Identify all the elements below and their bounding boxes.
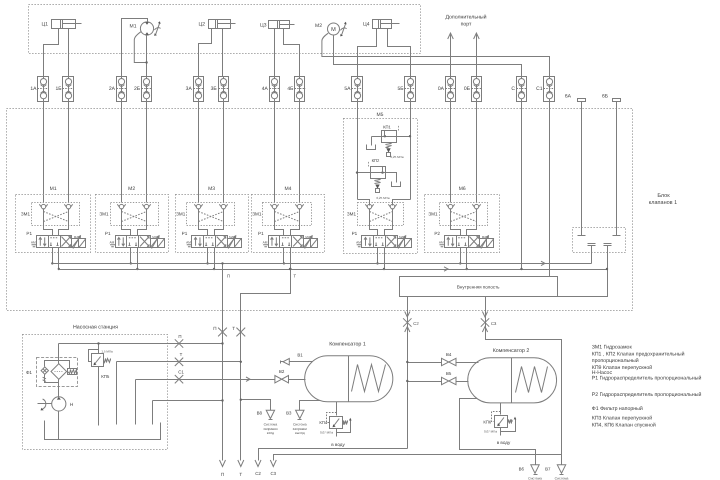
С3 line to bottom port (274, 455, 562, 461)
spring КП5 (104, 359, 111, 363)
pilot check valve 1Б (63, 77, 74, 102)
М1 variable displacement arrow (156, 23, 160, 34)
svg-text:3А: 3А (186, 86, 193, 92)
spring КП6 (508, 420, 513, 424)
svg-text:4Б: 4Б (287, 86, 294, 92)
П bus (pressure rail) (53, 263, 592, 265)
wire valve row to module (121, 102, 123, 203)
lock pilot cross lines (122, 212, 147, 222)
svg-text:КП5: КП5 (101, 374, 110, 379)
svg-text:М2: М2 (315, 23, 322, 29)
svg-text:Н: Н (70, 402, 73, 407)
Т bus (tank rail) (59, 269, 608, 271)
svg-text:АМ: АМ (31, 240, 36, 244)
wire С2 feed to В4 (408, 362, 442, 364)
wire М1 bottom port to 2Б (146, 35, 148, 77)
svg-text:С3: С3 (270, 471, 276, 476)
Т line to pump station (117, 361, 241, 363)
svg-text:ЗМ1: ЗМ1 (252, 212, 262, 217)
wire Р1 T port to Т bus (137, 248, 139, 270)
svg-text:Насосная станция: Насосная станция (73, 324, 118, 330)
svg-text:Дополнительный: Дополнительный (445, 15, 486, 21)
wire valve row to module (274, 102, 276, 203)
wire М2 case drain to С1 valve (322, 33, 550, 76)
wire Ц1 port B (68, 29, 70, 77)
solenoid of Р1 (228, 239, 235, 248)
П drop line to bottom port (222, 264, 224, 461)
flow arrow on Т bus (444, 267, 448, 271)
wire filter to П line (58, 344, 60, 364)
hydraulic lock ЗМ1 of М6 (440, 203, 488, 226)
svg-text:М2: М2 (128, 186, 135, 192)
wire Р2 P port to П bus (460, 248, 462, 264)
svg-text:АМ: АМ (263, 240, 268, 244)
wire valve row to module (198, 102, 200, 203)
svg-text:ЗМ1: ЗМ1 (428, 212, 438, 217)
wire Ц4 port B (388, 29, 411, 77)
junction С / Т bus (520, 268, 522, 270)
motor М2 (328, 23, 340, 35)
dashed enclosure: plug block (6А/6Б caps) (573, 228, 626, 253)
wire valve row to module (68, 102, 70, 203)
svg-text:КП1: КП1 (383, 125, 391, 130)
svg-text:В5: В5 (446, 371, 452, 376)
spring Компенсатор 1 (352, 365, 386, 392)
М2 side arrow (342, 24, 346, 35)
svg-text:0,07 МПа: 0,07 МПа (320, 431, 333, 435)
lock pilot cross lines (44, 212, 69, 222)
junction КП1 / 5Б (409, 135, 411, 137)
svg-text:В7: В7 (545, 467, 551, 472)
svg-text:МА: МА (305, 235, 310, 239)
pump Н (52, 397, 66, 411)
svg-text:М6: М6 (459, 186, 466, 192)
С2 line to bottom port (259, 449, 408, 461)
svg-text:МА: МА (74, 235, 79, 239)
box Внутренняя полость (400, 277, 558, 297)
svg-text:ЗМ1 Гидрозамок: ЗМ1 Гидрозамок (592, 344, 633, 350)
wire 5Б into М5 lock (393, 200, 411, 206)
Компенсатор 2 vessel (468, 358, 557, 403)
drain return into tank (152, 401, 154, 425)
КП6 outlet (500, 428, 502, 436)
wire С1 valve to Внутренняя полость (549, 102, 551, 277)
svg-text:АМ: АМ (356, 240, 361, 244)
svg-text:В2: В2 (279, 369, 285, 374)
svg-text:КП4, КП6 Клапан спускной: КП4, КП6 Клапан спускной (592, 422, 656, 428)
svg-text:В8: В8 (257, 410, 263, 415)
junction П line / П drop (221, 342, 223, 344)
svg-text:заправки: заправки (293, 427, 307, 431)
pilot check valve 3А (194, 77, 204, 102)
plug cap 6Б (613, 235, 621, 237)
solenoid of Р1 (304, 239, 311, 248)
wire Компенсатор 1 to КП4 (336, 402, 338, 416)
flow arrow С2 (405, 327, 410, 333)
wire КП2 to tank (386, 173, 397, 183)
В1 end bar (280, 361, 282, 364)
wire filter to pump (58, 380, 60, 397)
pilot check valve 2Б (142, 77, 152, 102)
svg-text:Р1: Р1 (258, 231, 264, 236)
П line from pump station (59, 343, 223, 345)
wires lock to valve Р2 (451, 210, 461, 236)
filter bypass branch (45, 361, 70, 369)
svg-text:М5: М5 (377, 112, 384, 118)
solenoid of Р1 (151, 239, 158, 248)
spring КП1 (386, 143, 392, 148)
pilot check valve С1 (544, 77, 555, 102)
flow arrow on С1 line (246, 377, 250, 381)
vent В3 to filling system (300, 401, 321, 411)
С1 line pump station to В2 (136, 379, 275, 381)
wire Р1 T port to Т bus (290, 248, 292, 270)
Компенсатор 2 drain to В6 (460, 399, 536, 465)
wire КП1 to 5Б line (397, 136, 411, 138)
svg-text:М1: М1 (130, 24, 137, 30)
svg-text:Р2: Р2 (434, 231, 440, 236)
svg-text:АМ: АМ (439, 240, 444, 244)
capped stub Т (604, 243, 612, 245)
dashed box module М1 (16, 195, 91, 253)
wire Р1 T port to Т bus (384, 248, 386, 270)
wire С2 feed to В5 (408, 381, 442, 383)
svg-text:М: М (331, 27, 336, 33)
wire П line to КП5 (98, 344, 100, 354)
svg-text:Система: Система (264, 422, 278, 426)
dashed enclosure: Насосная станция (23, 335, 168, 450)
svg-text:Т: Т (294, 274, 297, 279)
svg-text:1А: 1А (30, 86, 37, 92)
wire Р1 T port to Т bus (214, 248, 216, 270)
flow arrow С3 (482, 327, 487, 333)
svg-text:пропорциональный: пропорциональный (592, 358, 639, 364)
svg-text:П: П (178, 334, 181, 339)
pilot check valve 0Б (472, 77, 482, 102)
КП5 drain to tank (98, 367, 100, 426)
Т drop line to bottom port (241, 270, 291, 461)
svg-text:Компенсатор 2: Компенсатор 2 (493, 348, 530, 354)
clogging indicator diamond (41, 367, 48, 374)
wire valve row to module (146, 102, 148, 203)
spring Компенсатор 2 (516, 367, 548, 393)
svg-text:М3: М3 (208, 186, 215, 192)
pilot check valve 4А (270, 77, 280, 102)
spring КП2 (375, 179, 381, 184)
pump drive shaft (38, 403, 52, 405)
wire valve row to module (450, 102, 452, 203)
svg-text:С1: С1 (178, 370, 184, 375)
junction drain / П drop (221, 399, 223, 401)
svg-text:порт: порт (461, 22, 472, 28)
dashed box module М4 (252, 195, 325, 253)
svg-text:3Б: 3Б (211, 86, 218, 92)
lock pilot cross lines (275, 212, 300, 222)
hydraulic lock ЗМ1 of М3 (187, 203, 235, 226)
svg-text:С1: С1 (536, 86, 543, 92)
wire С valve to Т bus (521, 102, 523, 270)
svg-text:Ц3: Ц3 (260, 22, 267, 28)
svg-text:П: П (221, 472, 224, 477)
wire Р1 P port to П bus (52, 248, 54, 264)
pilot check valve 5А (352, 77, 363, 102)
svg-text:клапанов 1: клапанов 1 (649, 200, 677, 206)
pilot check valve 5Б (405, 77, 416, 102)
pilot check valve 2А (117, 77, 127, 102)
svg-text:выход: выход (295, 431, 305, 435)
svg-text:ЗМ1: ЗМ1 (21, 212, 31, 217)
svg-text:М4: М4 (284, 186, 291, 192)
С3 bottom arrow (270, 460, 276, 467)
junction С2 / В5 branch (406, 380, 408, 382)
hydraulic cylinder Ц3 (269, 21, 290, 29)
wire 5Б down through М5 (410, 102, 412, 200)
junction КП2 / 5А (356, 171, 358, 173)
dashed box module М2 (96, 195, 169, 253)
svg-text:0Б: 0Б (464, 86, 471, 92)
hydraulic lock ЗМ1 of М2 (111, 203, 159, 226)
flow arrow down С3 (482, 312, 487, 318)
lock pilot cross lines (451, 212, 477, 222)
svg-text:в воду: в воду (331, 442, 345, 447)
svg-text:ЗМ1: ЗМ1 (176, 212, 186, 217)
hydraulic lock ЗМ1 of М1 (32, 203, 80, 226)
wire 5А into М5 lock (358, 200, 370, 206)
tank symbol (КП1 drain) (367, 145, 376, 150)
wire Ц4 port A (358, 29, 377, 77)
svg-text:ЗМ1: ЗМ1 (99, 212, 109, 217)
additional port arrow A (450, 35, 452, 77)
wire Ц2 port A (199, 29, 212, 77)
flow arrow on П bus (541, 261, 545, 265)
svg-text:МА: МА (482, 235, 487, 239)
dashed enclosure: top actuators group (29, 5, 421, 54)
wire Р2 T port to Т bus (466, 248, 468, 270)
flow arrow down С2 (405, 312, 410, 318)
svg-text:6А: 6А (565, 94, 572, 100)
dashed enclosure: Блок клапанов 1 (7, 109, 633, 311)
С1 return into tank (135, 380, 137, 425)
svg-text:Система: Система (293, 422, 307, 426)
svg-text:4А: 4А (262, 86, 269, 92)
additional port arrow B (476, 35, 478, 77)
wire valve row to module (223, 102, 225, 203)
solenoid of Р2 (480, 239, 487, 248)
dashed box module М3 (176, 195, 249, 253)
svg-text:В3: В3 (286, 410, 292, 415)
coupling ✕ on П drop (218, 328, 227, 337)
wire М1 case drain (134, 32, 146, 63)
capped stub П (588, 243, 596, 245)
hydraulic motor М1 (140, 22, 153, 35)
tank symbol (КП2 drain) (392, 182, 401, 187)
flow arrow under КП2 (375, 185, 379, 189)
svg-text:АМ: АМ (109, 240, 114, 244)
svg-text:С: С (511, 86, 515, 92)
svg-text:Внутренняя полость: Внутренняя полость (457, 284, 500, 289)
svg-text:С3: С3 (491, 321, 497, 326)
hydraulic lock ЗМ1 of М4 (263, 203, 312, 226)
svg-text:Т: Т (180, 352, 183, 357)
coupling ✕ С2 (403, 318, 411, 326)
coupling ✕ С3 (481, 318, 489, 326)
svg-text:Р2 Гидрораспределитель пропорц: Р2 Гидрораспределитель пропорциональный (592, 392, 702, 398)
svg-text:КП2: КП2 (372, 158, 380, 163)
junction М1 drain / 2Б line (145, 61, 147, 63)
svg-text:МА: МА (152, 235, 157, 239)
svg-text:Р1: Р1 (182, 231, 188, 236)
svg-text:Ф1 Фильтр напорный: Ф1 Фильтр напорный (592, 406, 643, 412)
svg-text:Ц1: Ц1 (42, 22, 49, 28)
return loop КП4 (337, 420, 351, 433)
wire С3 drain from Внутренняя полость (486, 297, 562, 465)
junction Т drop / В8 branch (240, 399, 242, 401)
С2 bottom arrow (255, 460, 261, 467)
hydraulic cylinder Ц2 (209, 20, 231, 29)
coupling ✕ П (175, 339, 183, 347)
wire Ц3 port A (274, 29, 276, 77)
pilot check valve 1А (38, 77, 49, 102)
wire valve row to module (476, 102, 478, 203)
wire Ц2 port B (222, 29, 224, 77)
svg-text:Р1: Р1 (26, 231, 32, 236)
lock pilot cross lines (370, 212, 393, 222)
Т bottom arrow (238, 460, 244, 467)
wire 5А down through М5 (357, 102, 359, 200)
pilot line КП2 (368, 161, 370, 167)
Т return into tank (116, 362, 118, 425)
svg-text:Блок: Блок (657, 193, 670, 199)
svg-text:заправки: заправки (263, 427, 277, 431)
solenoid of Р1 (398, 239, 405, 248)
svg-text:2Б: 2Б (134, 86, 141, 92)
svg-text:М1: М1 (50, 186, 57, 192)
wire Ц3 port B (284, 29, 300, 77)
svg-text:5Б: 5Б (397, 86, 404, 92)
svg-text:1,5 МПа: 1,5 МПа (101, 350, 113, 354)
svg-text:1Б: 1Б (55, 86, 62, 92)
solenoid of Р1 (72, 239, 79, 248)
svg-text:Ц2: Ц2 (199, 22, 206, 28)
svg-text:в воду: в воду (497, 440, 511, 445)
svg-text:Р1: Р1 (352, 231, 358, 236)
svg-text:ЗМ1: ЗМ1 (347, 212, 357, 217)
wires lock to valve Р1 (275, 210, 284, 236)
junction Т line / Т drop (240, 361, 242, 363)
piston divider Компенсатор 2 (511, 358, 513, 403)
wire valve row to module (43, 102, 45, 203)
wire КП2 to 5А line (357, 172, 371, 174)
wire Т bus extension to Внутренняя полость corner (558, 270, 608, 297)
svg-text:Т: Т (239, 472, 242, 477)
wire Р1 P port to П bus (207, 248, 209, 264)
wire С2 drain from Внутренняя полость (407, 297, 409, 449)
svg-text:В6: В6 (519, 467, 525, 472)
plug cap 6А (578, 235, 586, 237)
svg-text:2А: 2А (109, 86, 116, 92)
wire М2 bottom port to С valve (334, 36, 522, 77)
bypass return wire (45, 375, 59, 383)
wire Р1 T port to Т bus (58, 248, 60, 270)
svg-text:С2: С2 (413, 321, 419, 326)
wires lock to valve Р1 (122, 210, 131, 236)
hydraulic cylinder Ц4 (373, 20, 392, 29)
coupling ✕ С1 (175, 375, 183, 383)
svg-text:Система: Система (528, 477, 542, 480)
svg-text:0,07 МПа: 0,07 МПа (484, 430, 497, 434)
wire Р1 P port to П bus (377, 248, 379, 264)
filter main diamond (51, 364, 67, 380)
svg-text:0,25 МПа: 0,25 МПа (391, 155, 404, 159)
wire Р1 P port to П bus (130, 248, 132, 264)
wire М1 top port to 2А (122, 19, 148, 77)
П bottom arrow (220, 460, 226, 467)
coupling ✕ Т (175, 358, 183, 366)
svg-text:Р1 Гидрораспределитель пропорц: Р1 Гидрораспределитель пропорциональный (592, 376, 702, 382)
hydraulic lock ЗМ1 of М5 (358, 203, 404, 226)
pilot loop КП5 (89, 350, 99, 362)
wires lock to valve Р1 (370, 210, 378, 236)
svg-text:вход: вход (267, 431, 274, 435)
dashed enclosure: module М5 (344, 119, 418, 254)
junction С2 / В4 branch (406, 361, 408, 363)
coupling ✕ on Т drop (236, 328, 245, 337)
wires lock to valve Р1 (199, 210, 208, 236)
svg-text:С2: С2 (255, 471, 261, 476)
svg-text:П: П (213, 326, 216, 331)
Компенсатор 1 vessel (305, 356, 393, 402)
vent В8 to filling system (241, 400, 271, 411)
svg-text:В4: В4 (446, 352, 452, 357)
svg-text:В1: В1 (297, 352, 303, 357)
svg-text:0А: 0А (438, 86, 445, 92)
wires lock to valve Р1 (44, 210, 53, 236)
piston divider Компенсатор 1 (348, 356, 350, 402)
svg-text:КП3 Клапан перепускной: КП3 Клапан перепускной (592, 416, 652, 422)
wire КП1 to tank (372, 136, 382, 138)
svg-text:0,25 МПа: 0,25 МПа (377, 196, 390, 200)
svg-text:6Б: 6Б (602, 94, 609, 100)
hydraulic cylinder Ц1 (52, 20, 76, 29)
dashed box module М6 (425, 195, 500, 253)
pilot check valve 4Б (295, 77, 305, 102)
pilot line КП6 (492, 412, 501, 422)
pilot check valve 0А (446, 77, 456, 102)
svg-text:КП6: КП6 (483, 419, 491, 424)
flow arrow under КП1 (386, 148, 390, 152)
svg-text:5А: 5А (344, 86, 351, 92)
return loop КП6 (501, 419, 516, 432)
tank trough (45, 421, 161, 440)
pilot check valve 3Б (219, 77, 229, 102)
svg-text:Т: Т (232, 326, 235, 331)
wire Компенсатор 2 to КП6 (500, 403, 502, 415)
svg-text:МА: МА (229, 235, 234, 239)
pilot line КП4 (327, 413, 337, 423)
wire valve row to module (299, 102, 301, 203)
svg-text:МА: МА (399, 235, 404, 239)
pilot check valve С (517, 77, 527, 102)
svg-text:АМ: АМ (186, 240, 191, 244)
pump suction to tank (58, 412, 60, 440)
lock pilot cross lines (199, 212, 224, 222)
КП4 outlet (336, 429, 338, 437)
svg-text:Ф1: Ф1 (26, 370, 32, 375)
spring КП4 (343, 421, 348, 425)
svg-text:Компенсатор 1: Компенсатор 1 (329, 341, 366, 347)
drain line pump station (153, 400, 223, 402)
pilot line КП1 (398, 125, 400, 131)
